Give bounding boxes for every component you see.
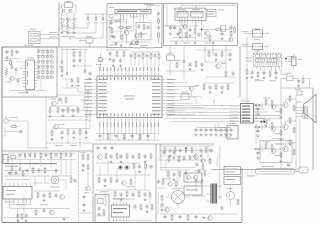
wire u101 top10 <box>157 69 159 72</box>
resistor R821 <box>179 28 182 39</box>
capacitor C864 <box>208 85 211 93</box>
dot br1 <box>185 147 187 149</box>
capacitor C821 <box>169 26 172 35</box>
wire mid v2 <box>66 47 68 72</box>
pin U101 top6 <box>117 72 119 76</box>
wire cl v5 <box>68 137 80 149</box>
label U101 top16 <box>153 67 156 71</box>
wire rgb5 <box>254 117 266 119</box>
transistor Q803b <box>135 34 139 38</box>
label U101 top1 <box>98 67 101 71</box>
divider top-left vertical <box>58 2 60 47</box>
capacitor C859 <box>78 58 81 63</box>
pin IF801.2 <box>119 14 121 18</box>
wire rm h1 <box>167 70 197 72</box>
label U101 bot8 <box>124 123 127 128</box>
wire tuner down <box>246 78 248 104</box>
pin IF801.3 <box>123 14 125 19</box>
wire key3 <box>71 24 104 38</box>
resistor R869 <box>98 177 100 184</box>
ic U101 LC863532 body <box>97 76 162 118</box>
pin IF801.8 <box>139 14 141 18</box>
resistor R893 <box>60 152 62 159</box>
capacitor C907 <box>14 171 17 176</box>
resistor R903 <box>70 177 72 184</box>
wire ps bot1 <box>10 196 71 222</box>
transistor Q816 <box>216 63 226 68</box>
wire S801 left <box>241 31 252 33</box>
ground ps1 <box>63 218 66 221</box>
schematic sheet border bottom <box>2 222 242 224</box>
wire crt join <box>280 93 282 163</box>
capacitor C886 <box>172 172 175 181</box>
pin U101 top14 <box>146 72 148 76</box>
wire z left <box>280 78 282 93</box>
wire mid h2 <box>78 84 92 92</box>
audio block frame <box>164 3 238 45</box>
wire u101 bot9 <box>132 121 134 140</box>
resistor R802 <box>66 20 69 30</box>
wire IF801 top <box>147 6 160 10</box>
label U101 left8 <box>85 102 93 105</box>
resistor R884 <box>171 214 173 221</box>
wire dg <box>48 180 66 190</box>
ic N804 eeprom <box>224 123 239 139</box>
wire rm v1 <box>169 46 171 56</box>
capacitor C879 <box>114 134 117 139</box>
wire u101 top3 <box>110 71 112 72</box>
label XS801 <box>241 100 250 103</box>
pin U101 right1 <box>162 78 166 80</box>
capacitor C877 <box>229 128 232 133</box>
capacitor C832 <box>250 70 253 78</box>
wire rgb link1 <box>254 126 263 128</box>
wire br h5 <box>160 169 190 171</box>
label U101 left1 <box>85 78 93 81</box>
wire br h4 <box>192 195 206 197</box>
transistor Q892 <box>50 210 55 215</box>
resistor R891 <box>40 152 42 159</box>
wire above ic h <box>107 49 130 51</box>
wire u101 bot15 <box>154 121 156 140</box>
capacitor C895 <box>25 168 28 173</box>
bus h115 <box>166 115 281 117</box>
junction dot 9 <box>195 25 198 28</box>
wire u101 top8 <box>143 66 145 72</box>
pin U101 right4 <box>162 89 166 91</box>
wire u101 right10 <box>166 113 196 115</box>
label XS801.6 <box>229 120 238 123</box>
degauss thermistor <box>255 169 295 175</box>
capacitor C873 <box>119 154 122 163</box>
label tuner left <box>246 58 253 62</box>
resistor R859b <box>79 51 81 58</box>
wire br h2 <box>158 159 210 161</box>
resistor R871b <box>289 95 291 102</box>
ic N891 smps ctrl <box>3 183 32 204</box>
wire sec bot <box>80 212 92 214</box>
resistor R8104 <box>139 133 141 140</box>
wire b2 drop3 <box>195 25 197 41</box>
wire br h1 <box>160 145 195 147</box>
junction dot 4 <box>221 104 224 107</box>
resistor R862 <box>195 61 197 68</box>
wire jack v <box>27 121 29 148</box>
capacitor C874 <box>131 154 134 159</box>
wire n891 top <box>6 179 31 181</box>
wire cl v58 <box>58 97 62 104</box>
resistor R890 <box>175 181 177 188</box>
capacitor C906 <box>8 171 11 176</box>
wire mid v4 <box>84 50 86 71</box>
ground br1 <box>203 216 206 219</box>
label U101 bot3 <box>106 123 109 128</box>
capacitor C882r <box>256 151 259 160</box>
resistor R8111 <box>126 191 128 198</box>
wire dg right <box>295 170 299 172</box>
switch S801 <box>252 29 262 41</box>
resistor R817 <box>121 34 123 41</box>
wire key col1 <box>38 49 40 79</box>
wire u101 right9 <box>166 110 185 112</box>
resistor R872c <box>293 127 295 134</box>
wire u101 bot1 <box>102 121 104 140</box>
junction dot 1 <box>169 114 172 117</box>
capacitor C858 <box>72 58 75 67</box>
label U101 bot1 <box>98 123 101 128</box>
key switch S31 <box>37 61 39 63</box>
wire u101 right4 <box>166 92 190 94</box>
wire bus drop1 <box>213 101 215 106</box>
capacitor C848 <box>60 130 63 139</box>
label U101 bot16 <box>153 123 156 128</box>
resistor R844 <box>61 66 64 77</box>
label br <box>162 170 201 179</box>
label b1 extra <box>115 17 138 22</box>
label right of box <box>218 9 224 12</box>
wire rm h0 <box>196 49 232 51</box>
key switch S64 <box>51 77 53 79</box>
wire smps h207 <box>160 206 172 208</box>
ground audio 3 <box>212 42 215 45</box>
pin U101 bot17 <box>157 118 159 122</box>
ground osc 1 <box>61 31 64 34</box>
wire if bus <box>112 41 150 43</box>
inductor L801 <box>24 153 26 159</box>
capacitor C867c <box>231 71 234 76</box>
capacitor C901 <box>42 208 45 213</box>
transistor V835 <box>271 127 275 131</box>
label U101 bot12 <box>139 123 142 128</box>
wire rm h0b <box>205 62 236 77</box>
resistor R8121 <box>178 156 180 163</box>
wire u101 left net4 <box>87 104 93 120</box>
wire rm v5 <box>225 46 227 71</box>
transistor Q811 <box>118 165 123 170</box>
transistor Q819 <box>165 208 169 212</box>
transistor Q808 <box>54 124 65 129</box>
wire u101 bot8 <box>128 121 130 135</box>
transistor Q818 <box>168 182 172 186</box>
inductor L802 <box>34 153 36 159</box>
wire audio left in <box>164 3 177 26</box>
capacitor C888 <box>172 150 175 159</box>
resistor R860 <box>105 153 107 160</box>
vert chain right <box>157 11 160 44</box>
diode D880 <box>185 149 187 154</box>
resistor R898 <box>21 213 23 220</box>
resistor R901 <box>87 154 89 161</box>
note text line2 <box>5 165 18 168</box>
capacitor C898 <box>54 193 57 198</box>
electro C823 <box>183 20 187 28</box>
capacitor C881 <box>286 163 291 166</box>
wire rgb link2 <box>254 148 263 150</box>
pin U101 bot1 <box>99 118 101 122</box>
dot below0 <box>98 139 101 142</box>
wire ps h176 <box>4 175 72 177</box>
video right vertical <box>239 46 241 98</box>
junction dot 3 <box>199 111 202 114</box>
capacitor C885 <box>157 179 160 184</box>
wire u101 left net2 <box>80 90 93 100</box>
wire ps v3 <box>29 160 31 169</box>
capacitor C894 <box>54 153 57 158</box>
crt top wire <box>281 87 313 89</box>
wire jack h2 <box>5 127 18 138</box>
resistor R875 <box>126 153 128 160</box>
capacitor C842 <box>15 50 18 55</box>
wire audio bus3 <box>203 28 231 30</box>
label U101 top4 <box>109 67 112 71</box>
capacitor C893 <box>44 153 47 158</box>
label keyboard block <box>24 44 33 47</box>
resistor R823h <box>215 29 223 31</box>
resistor R831 <box>246 69 249 80</box>
wire sb h4 <box>112 198 130 200</box>
key switch S23 <box>46 56 48 58</box>
pin U101 bot10 <box>132 118 134 122</box>
capacitor C882 <box>163 215 166 220</box>
dot audio <box>201 28 203 30</box>
resistor R873 <box>280 152 283 163</box>
capacitor C866c <box>228 52 231 61</box>
capacitor C8112 <box>143 192 146 201</box>
crt right border <box>312 88 314 170</box>
resistor R879 <box>150 153 152 160</box>
capacitor C841 <box>5 50 8 59</box>
key switch S12 <box>42 51 44 53</box>
transistor Q805 <box>6 76 15 82</box>
resistor R8110 <box>114 191 116 198</box>
resistor R885 <box>187 214 189 221</box>
capacitor C883 <box>178 215 181 220</box>
pin D801.L1 <box>22 61 26 63</box>
pin D801.R3 <box>34 67 36 69</box>
speaker SP801 <box>98 196 107 206</box>
pin U101 left6 <box>94 96 98 98</box>
label N891 <box>5 201 15 204</box>
key switch S22 <box>42 56 44 58</box>
label kb bottom <box>18 91 27 94</box>
pin U101 bot12 <box>139 118 141 122</box>
wire smps v178 <box>170 168 178 186</box>
rgb amp stage 3 input <box>262 143 283 153</box>
bridge D893 <box>8 167 13 174</box>
wire smps v208 <box>207 146 209 158</box>
resistor R841 <box>11 50 13 57</box>
capacitor C834 <box>274 71 277 79</box>
wire u101 right3 <box>166 89 179 91</box>
label U101 top8 <box>124 67 127 71</box>
capacitor C875 <box>219 128 222 133</box>
wire ps v4 <box>40 160 42 167</box>
capacitor C865b <box>109 154 112 163</box>
capacitor C876 <box>209 148 212 153</box>
capacitor C880r <box>256 107 259 116</box>
label U101 left3 <box>85 85 93 88</box>
wire ps v6 <box>60 160 62 176</box>
wire kb mid <box>14 62 22 79</box>
wire ps v2 <box>19 159 21 168</box>
resistor R8122 <box>161 195 163 202</box>
capacitor C877 <box>143 154 146 163</box>
wire ps v9 <box>35 176 45 187</box>
label box LA <box>207 9 216 16</box>
wire crt bot <box>280 163 282 169</box>
resistor R8124 <box>204 170 206 177</box>
capacitor C871 <box>199 128 202 133</box>
pin D801.L6 <box>22 77 26 79</box>
resistor R880r <box>254 104 261 106</box>
pin U101 top2 <box>102 72 104 76</box>
pin tuner.5 <box>271 67 273 71</box>
wire u101 left net5 <box>90 111 93 128</box>
capacitor C8110 <box>119 192 122 201</box>
smps block right border <box>241 168 243 223</box>
schematic sheet border left <box>1 47 3 223</box>
resistor R886 <box>162 179 164 186</box>
wire audio bus2 <box>167 25 199 27</box>
label U101 top6 <box>117 67 120 71</box>
diode D883 <box>185 171 187 176</box>
label U101 top3 <box>106 67 109 71</box>
wire smps h150 <box>160 150 214 152</box>
capacitor C851b <box>58 97 61 102</box>
label U101 bot17 <box>157 123 160 128</box>
key switch S42 <box>42 66 44 68</box>
label U101 bot5 <box>113 123 116 128</box>
capacitor C896 <box>37 168 40 173</box>
diode D895 <box>55 169 57 174</box>
wire ps h183 <box>33 182 56 184</box>
label U101 bot11 <box>135 123 138 128</box>
pin D801.R7 <box>34 80 36 82</box>
capacitor C881 <box>146 134 149 139</box>
wire b2 h <box>172 37 196 39</box>
wire u101 bot16 <box>157 121 159 135</box>
ground c873 <box>210 133 213 136</box>
wire key row1 <box>37 49 52 51</box>
wire mid h3 <box>62 49 88 51</box>
resistor R867 <box>133 163 135 170</box>
wire sb v2 <box>135 168 145 190</box>
pin U101 right2 <box>162 82 166 84</box>
regul box1 <box>224 167 241 175</box>
dot video in1 <box>261 121 263 123</box>
resistor R816h <box>125 27 132 29</box>
resistor R892 <box>50 152 52 159</box>
wire crt v2 <box>299 120 301 170</box>
ground if2 <box>120 44 123 47</box>
label U101 left6 <box>85 95 93 98</box>
ic reg N803 <box>181 92 189 100</box>
wire smps v202b <box>201 151 203 163</box>
wire cl h4 <box>46 142 93 144</box>
caps sb top <box>96 146 113 151</box>
wire u101 bot5 <box>117 121 119 140</box>
pin tuner.3 <box>263 67 265 73</box>
ground osc 3 <box>73 31 76 34</box>
pin tuner.7 <box>278 67 280 70</box>
capacitor C872 <box>145 204 148 213</box>
label U101 right2 <box>167 81 175 84</box>
capacitor C862 <box>188 62 191 70</box>
wire u101 bot7 <box>124 121 126 140</box>
wire sb v3 <box>149 199 151 204</box>
wire deg v <box>247 169 252 174</box>
resistor R897 <box>49 192 51 199</box>
ground c874 <box>215 133 218 136</box>
wire above ic h2 <box>131 51 159 53</box>
label U101 top14 <box>146 67 149 71</box>
wire crt v1 <box>295 95 297 169</box>
wire br bot <box>160 213 238 215</box>
pin N801.2 <box>181 17 183 25</box>
wire u101 bot10 <box>135 121 137 135</box>
label U101 bot6 <box>117 123 120 128</box>
capacitor C828 <box>197 32 200 37</box>
label XS801.1 <box>229 105 238 108</box>
resistor R858 <box>79 129 81 136</box>
pin tuner.6 <box>275 67 277 73</box>
dot below1 <box>108 139 111 142</box>
resistor R847 <box>49 107 52 118</box>
wire u101 right0 <box>166 78 176 80</box>
key switch S52 <box>42 72 44 74</box>
label XS801.3 <box>229 111 238 114</box>
pin U101 bot7 <box>121 118 123 122</box>
pin D801.L2 <box>22 64 26 66</box>
wire remote data <box>40 33 59 35</box>
capacitor C899 <box>16 213 19 222</box>
label degauss <box>262 165 274 168</box>
key switch S53 <box>46 72 48 74</box>
capacitor C851 <box>108 51 111 60</box>
resistor R871c <box>293 105 295 112</box>
capacitor C881r <box>256 129 259 138</box>
box focus <box>295 89 302 95</box>
wire t801 leads <box>166 197 190 208</box>
capacitor C880b <box>168 148 171 157</box>
resistor R882 <box>191 147 193 154</box>
wire eeprom <box>215 122 224 131</box>
wire rgb1 <box>254 105 263 107</box>
transistor Q803 <box>124 30 133 35</box>
pin U101 left3 <box>94 85 98 87</box>
jack X802 av <box>4 116 8 123</box>
ground c876 <box>225 133 228 136</box>
